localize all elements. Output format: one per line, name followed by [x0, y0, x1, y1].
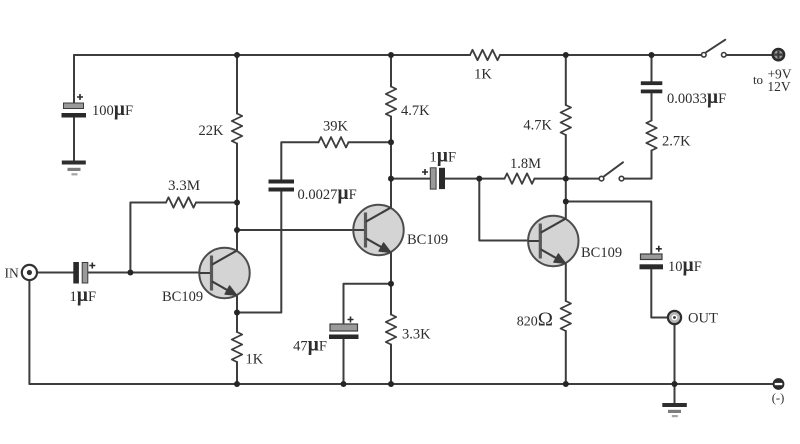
svg-text:1K: 1K: [474, 67, 492, 83]
resistor R_22K: [232, 114, 242, 144]
transistor Q2 BC109: [353, 205, 403, 255]
wire 0.0033uF top to rail: [651, 55, 653, 81]
wire 3.3K bottom to rail: [390, 345, 392, 385]
wire top rail left segment: [74, 54, 470, 56]
capacitor C1 100uF (electrolytic): [62, 94, 87, 118]
resistor R_1.8M: [505, 173, 535, 183]
node rail-1K: [234, 381, 240, 387]
svg-text:BC109: BC109: [162, 289, 203, 305]
capacitor C2 1uF input (electrolytic): [73, 262, 95, 284]
svg-text:1K: 1K: [246, 352, 264, 368]
capacitor C3 0.0027uF: [269, 180, 295, 192]
node rail-4.7Ka: [388, 52, 394, 58]
ground under OUT: [662, 403, 687, 417]
node 3.3M-22K: [234, 200, 240, 206]
resistor R_4.7K_b (4.7K Q3 collector): [561, 105, 571, 135]
wire 3.3M to 22K line: [196, 202, 237, 204]
node 39K-4.7K: [388, 139, 394, 145]
terminal +9V supply: [773, 49, 784, 60]
switch S2 (tone switch): [599, 162, 624, 181]
capacitor C4 47uF (electrolytic): [329, 317, 359, 340]
wire OUT to bottom rail: [674, 324, 676, 384]
wire bottom rail: [29, 383, 772, 385]
wire 1.8M to Q3 collector line: [535, 178, 566, 180]
wire 39K to Q2 collector line: [349, 141, 392, 143]
node rail-820: [563, 381, 569, 387]
wire left drop to 100uF: [73, 55, 75, 103]
svg-text:100µF: 100µF: [92, 99, 133, 120]
wire 47uF bottom to rail: [343, 339, 345, 385]
node rail-3.3K: [388, 381, 394, 387]
svg-text:1µF: 1µF: [70, 285, 97, 306]
resistor R_4.7K_a (4.7K Q2 collector): [386, 87, 396, 117]
wire Q2 collector node to 1uF coupling: [391, 178, 430, 180]
svg-text:OUT: OUT: [688, 311, 718, 327]
node Q3 collector: [563, 199, 569, 205]
wire rail to ground at OUT: [674, 384, 676, 403]
svg-text:39K: 39K: [323, 119, 349, 135]
wire 4.7K b to Q3 collector: [565, 135, 567, 219]
wire switch to +9V terminal: [727, 54, 773, 56]
svg-text:22K: 22K: [199, 123, 225, 139]
wire 100uF to ground: [73, 118, 75, 161]
svg-text:0.0027µF: 0.0027µF: [298, 183, 357, 204]
svg-text:3.3M: 3.3M: [168, 178, 200, 194]
svg-text:IN: IN: [5, 266, 19, 281]
wire 4.7K to Q2 collector: [390, 117, 392, 209]
svg-text:3.3K: 3.3K: [402, 327, 431, 343]
svg-text:4.7K: 4.7K: [401, 103, 430, 119]
node rail-4.7Kb: [563, 52, 569, 58]
wire switch2 to 2.7K leg: [624, 151, 652, 179]
wire Q3 emitter down: [565, 264, 567, 302]
svg-text:(-): (-): [772, 391, 785, 405]
node 1.8M right: [563, 176, 569, 182]
resistor R_1K_emitter (1K Q1 emitter): [232, 332, 242, 362]
svg-text:4.7K: 4.7K: [523, 118, 552, 134]
node Q2 emitter: [388, 281, 394, 287]
node input-feedback: [127, 270, 133, 276]
resistor R_2.7K: [646, 121, 656, 151]
node 1.8M left: [476, 176, 482, 182]
svg-text:0.0033µF: 0.0033µF: [667, 87, 726, 108]
wire 1K bottom to rail: [236, 362, 238, 384]
wire 10uF bottom to OUT: [651, 270, 668, 318]
switch S1 (power switch on rail): [702, 40, 727, 57]
transistor Q1 BC109: [199, 248, 249, 298]
svg-text:1µF: 1µF: [430, 146, 457, 167]
wire Q1 collector node to Q2 base: [237, 229, 354, 231]
wire 820 bottom to rail: [565, 331, 567, 384]
resistor R_3.3K: [386, 315, 396, 345]
wire 1uF to Q1 base: [88, 272, 200, 274]
svg-text:10µF: 10µF: [668, 255, 702, 276]
wire 47uF top leg: [344, 284, 392, 323]
node dots: [127, 52, 677, 387]
wire Q2 emitter down: [390, 253, 392, 315]
wire 22K branch top: [236, 55, 238, 114]
terminal IN: [22, 265, 37, 280]
svg-text:BC109: BC109: [407, 232, 448, 248]
node rail-22K: [234, 52, 240, 58]
svg-text:1.8M: 1.8M: [510, 156, 541, 172]
node rail-47uF: [341, 381, 347, 387]
transistor Q3 BC109: [528, 216, 578, 266]
terminal (-) return: [773, 378, 785, 390]
wire 39K left leg from 0.0027uF: [281, 142, 318, 179]
svg-text:BC109: BC109: [581, 245, 622, 261]
resistor R_1K_top (1K on supply rail): [470, 50, 500, 60]
wire 1uF to 1.8M node: [445, 178, 505, 180]
wire Q1 emitter down to 1K: [236, 295, 238, 332]
wire 0.0027uF bottom to Q1 emitter node: [237, 192, 281, 313]
wire Q3 base leg: [479, 179, 528, 241]
wire 4.7K b branch top: [565, 55, 567, 105]
wire IN to 1uF: [37, 272, 73, 274]
wire IN drop to bottom rail: [28, 281, 30, 385]
resistor R_820: [561, 301, 571, 331]
wire Q2 collector branch: [390, 55, 392, 87]
node Q1 emitter: [234, 310, 240, 316]
svg-text:47µF: 47µF: [293, 335, 327, 356]
svg-text:to: to: [753, 72, 763, 87]
wire Q3 collector to 10uF: [566, 202, 652, 254]
node Q1 collector: [234, 227, 240, 233]
capacitor C7 10uF (electrolytic): [640, 246, 664, 269]
capacitor C6 0.0033uF: [641, 81, 663, 93]
node Q2 collector out: [388, 176, 394, 182]
capacitor C5 1uF coupling (electrolytic): [422, 168, 445, 189]
resistor R_3.3M: [166, 197, 196, 207]
wire top rail right segment to switch: [500, 54, 701, 56]
resistor R_39K: [319, 137, 349, 147]
svg-text:12V: 12V: [767, 79, 791, 94]
wire 22K bottom to Q1 collector: [236, 144, 238, 251]
ground under 100uF: [62, 161, 86, 176]
wire feedback vertical 3.3M: [130, 203, 166, 273]
wire 2.7K top to 0.0033uF: [651, 94, 653, 121]
node rail-out-ground: [672, 381, 678, 387]
terminal OUT jack: [668, 311, 681, 324]
wire switch2 left leg: [566, 178, 599, 180]
svg-text:2.7K: 2.7K: [662, 134, 691, 150]
node rail-0.0033: [649, 52, 655, 58]
